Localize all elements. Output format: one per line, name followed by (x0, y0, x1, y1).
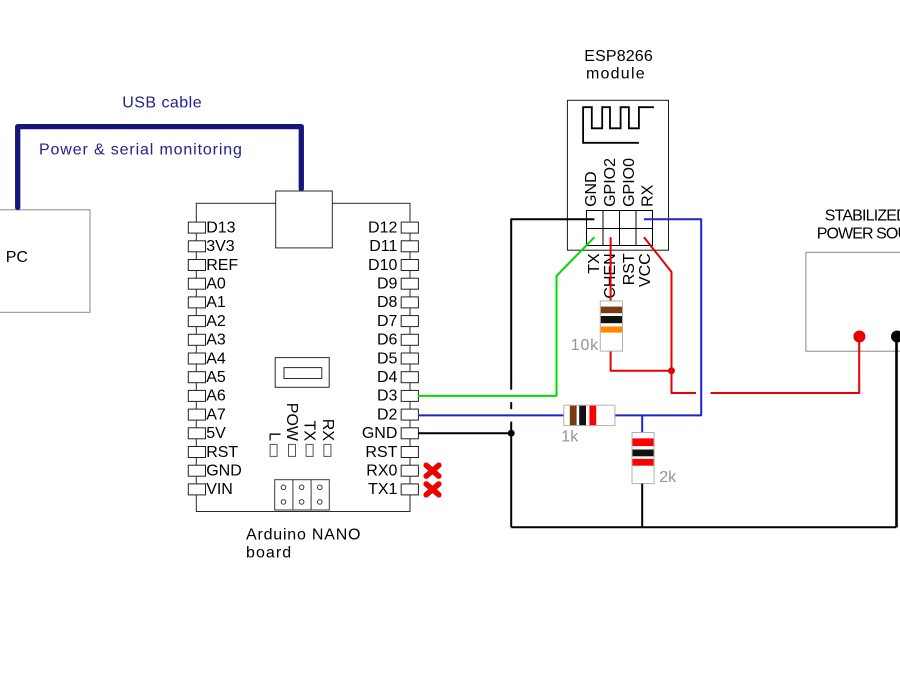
red X (do not connect) (426, 465, 439, 476)
wire red: horizontal run to power source positive terminal (711, 342, 860, 394)
Arduino pin A1 (left) (188, 294, 226, 311)
wire blue: ESP RX to Arduino D2 through 1k (418, 219, 701, 415)
label ESP8266 module (584, 48, 653, 82)
resistor R3 2k (vertical) (632, 433, 677, 486)
Arduino pin D6 (right) (377, 332, 418, 349)
svg-text:REF: REF (206, 257, 238, 274)
svg-text:ESP8266: ESP8266 (584, 48, 653, 65)
Arduino LED at x=292.0 (289, 444, 296, 456)
svg-text:RX: RX (319, 419, 336, 442)
Arduino pin GND (right) (362, 425, 419, 442)
svg-text:Power & serial monitoring: Power & serial monitoring (39, 141, 242, 158)
wire green: ESP TX to Arduino D3 (418, 237, 594, 396)
svg-text:L: L (265, 432, 282, 441)
ESP8266 module body (567, 100, 668, 250)
svg-text:VIN: VIN (206, 481, 233, 498)
svg-text:RST: RST (365, 444, 397, 461)
svg-text:1k: 1k (561, 429, 579, 446)
wire black: Arduino GND to junction (418, 432, 511, 434)
wire black: junction down to ground rail (510, 433, 512, 527)
svg-text:D13: D13 (206, 219, 235, 236)
svg-text:RX: RX (640, 184, 657, 207)
Arduino LED at x=327.4 (324, 444, 331, 456)
Arduino pin REF (left) (188, 257, 238, 274)
svg-text:5V: 5V (206, 425, 226, 442)
svg-text:PC: PC (6, 249, 28, 266)
PC box (0, 210, 90, 312)
svg-text:D7: D7 (377, 313, 398, 330)
svg-text:D3: D3 (377, 388, 398, 405)
Arduino pin D3 (right) (377, 388, 418, 405)
junction node VCC (red dot) (668, 367, 675, 374)
Arduino LED at x=309.6 (306, 444, 313, 456)
Arduino pin RST (right) (365, 444, 418, 461)
Arduino pin D10 (right) (368, 257, 418, 274)
svg-text:Arduino NANO: Arduino NANO (246, 526, 361, 543)
red X (do not connect) (426, 484, 439, 495)
svg-text:D12: D12 (368, 219, 397, 236)
svg-text:A1: A1 (206, 294, 226, 311)
Arduino pin D4 (right) (377, 369, 418, 386)
Arduino LED at x=273.6 (270, 444, 277, 456)
Arduino pin D9 (right) (377, 276, 418, 293)
svg-text:A5: A5 (206, 369, 226, 386)
Arduino USB connector (276, 191, 333, 248)
Arduino pin D7 (right) (377, 313, 418, 330)
svg-text:A0: A0 (206, 276, 226, 293)
wire blue: branch to 2k resistor (641, 415, 643, 433)
svg-text:A7: A7 (206, 406, 226, 423)
Arduino pin D13 (left) (188, 219, 235, 236)
Arduino NANO board body (196, 203, 410, 511)
svg-text:STABILIZED: STABILIZED (825, 208, 900, 225)
svg-text:A6: A6 (206, 388, 226, 405)
svg-text:D10: D10 (368, 257, 397, 274)
svg-text:3V3: 3V3 (206, 238, 235, 255)
svg-text:RST: RST (206, 444, 238, 461)
Arduino pin RST (left) (188, 444, 238, 461)
svg-text:GND: GND (206, 463, 242, 480)
Arduino pin 5V (left) (188, 425, 226, 442)
svg-text:A2: A2 (206, 313, 226, 330)
Arduino pin D12 (right) (368, 219, 418, 236)
STABILIZED POWER SOURCE box (806, 208, 900, 352)
svg-text:D2: D2 (377, 406, 398, 423)
wire black: bottom ground rail (511, 526, 896, 528)
svg-text:USB cable: USB cable (122, 94, 201, 111)
Arduino ICSP header (275, 480, 330, 510)
resistor R2 1k (horizontal) (561, 405, 615, 446)
svg-text:GND: GND (362, 425, 398, 442)
svg-text:D5: D5 (377, 350, 398, 367)
svg-text:board: board (246, 545, 291, 562)
svg-text:TX1: TX1 (368, 481, 397, 498)
power source negative terminal (black) (891, 331, 900, 343)
wire red: ESP VCC down through junction to bottom corner (644, 237, 696, 393)
svg-text:D9: D9 (377, 276, 398, 293)
svg-text:VCC: VCC (637, 253, 654, 287)
Arduino pin A0 (left) (188, 276, 226, 293)
svg-text:D11: D11 (369, 238, 397, 255)
Arduino pin A2 (left) (188, 313, 226, 330)
Arduino pin A6 (left) (188, 388, 226, 405)
svg-text:A3: A3 (206, 332, 226, 349)
ESP8266 pin grid (587, 211, 653, 246)
Arduino pin D5 (right) (377, 350, 418, 367)
svg-text:GND: GND (583, 171, 600, 207)
wire red: ESP CHEN down to 10k resistor (610, 237, 612, 301)
Arduino pin TX1 (right) (368, 481, 418, 498)
svg-text:module: module (586, 66, 645, 83)
label Arduino NANO board (246, 526, 361, 561)
Arduino pin D8 (right) (377, 294, 418, 311)
Arduino pin A7 (left) (188, 406, 226, 423)
Arduino pin A5 (left) (188, 369, 226, 386)
svg-text:GPIO2: GPIO2 (602, 158, 619, 207)
svg-text:POWER SOURCE: POWER SOURCE (817, 225, 900, 242)
Arduino pin D11 (right) (369, 238, 418, 255)
svg-text:TX: TX (586, 253, 603, 274)
Arduino pin 3V3 (left) (188, 238, 234, 255)
svg-text:POW: POW (283, 403, 300, 442)
wire black: rail up to power source negative terminal (895, 337, 898, 527)
svg-text:TX: TX (301, 421, 318, 442)
Arduino pin A4 (left) (188, 350, 226, 367)
ESP8266 antenna trace (583, 107, 654, 143)
svg-text:RX0: RX0 (366, 463, 397, 480)
svg-text:2k: 2k (659, 469, 677, 486)
svg-text:D4: D4 (377, 369, 398, 386)
Arduino pin D2 (right) (377, 406, 418, 423)
wire black: bus from blue crossing to GND junction (510, 422, 512, 434)
wire black: bus segment between wire crossings (510, 402, 512, 409)
Arduino pin GND (left) (188, 463, 241, 480)
Arduino reset button (275, 358, 329, 388)
wire USB cable (PC to Arduino USB) (18, 127, 302, 208)
power source positive terminal (red) (853, 331, 865, 343)
wire black: ESP GND to vertical bus (511, 219, 594, 390)
svg-text:D6: D6 (377, 332, 398, 349)
wire black: 2k resistor to ground rail (641, 484, 643, 528)
svg-text:A4: A4 (206, 350, 226, 367)
junction node GND (black dot) (508, 430, 515, 437)
svg-text:RST: RST (621, 253, 638, 285)
resistor R1 10k (vertical) (571, 301, 623, 354)
wire red: 10k resistor to VCC junction (611, 351, 672, 371)
Arduino pin VIN (left) (188, 481, 233, 498)
Arduino pin A3 (left) (188, 332, 226, 349)
Arduino pin RX0 (right) (366, 463, 418, 480)
svg-text:GPIO0: GPIO0 (621, 158, 638, 207)
svg-text:D8: D8 (377, 294, 398, 311)
svg-text:10k: 10k (571, 337, 599, 354)
